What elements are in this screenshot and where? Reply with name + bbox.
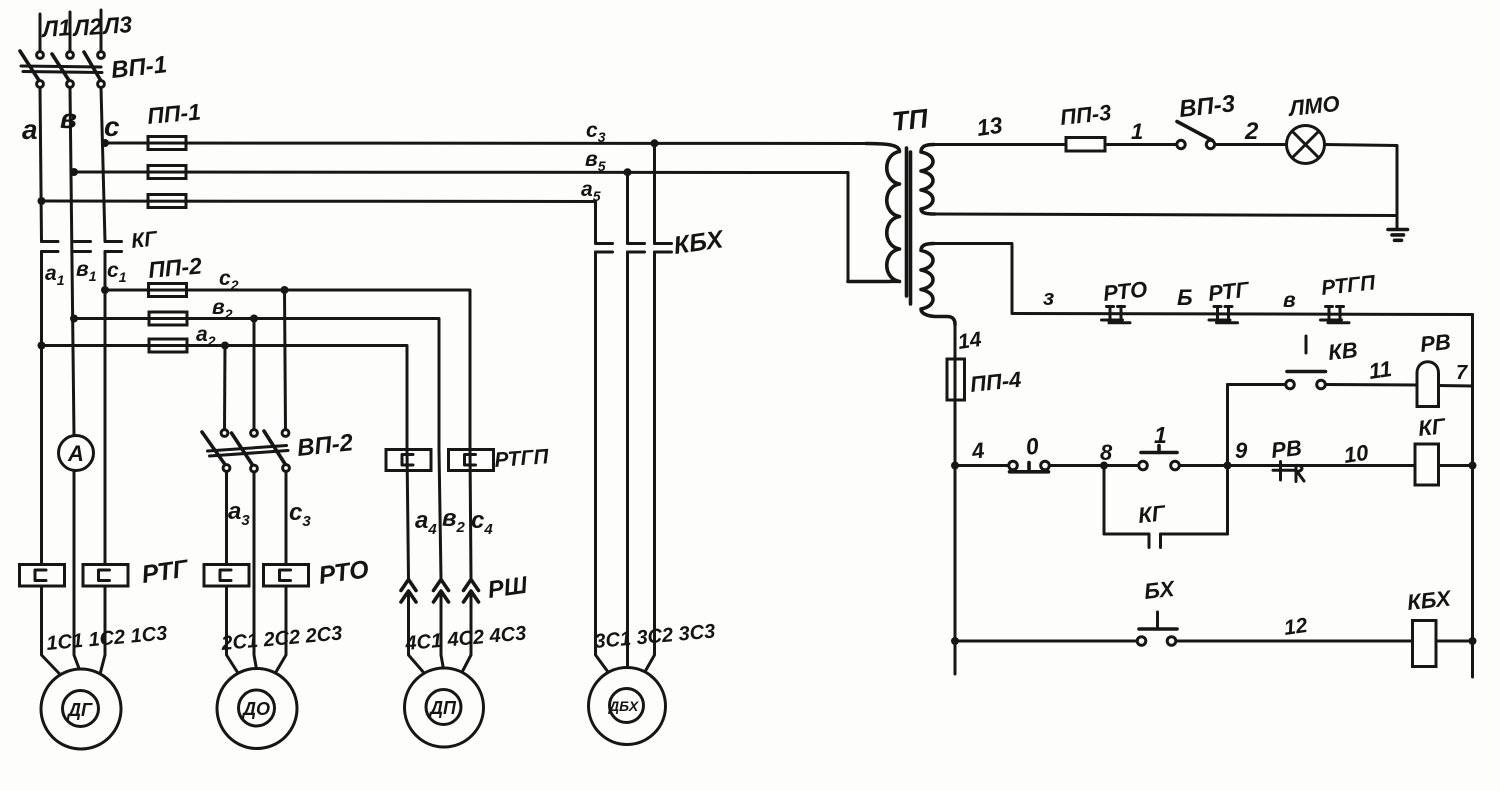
svg-text:Б: Б <box>1177 285 1193 310</box>
node b2 junction <box>70 315 78 323</box>
wire drop a2 to ВП-2 <box>223 346 227 430</box>
wire phase c upper <box>101 88 105 242</box>
svg-text:КГ: КГ <box>1137 500 1168 528</box>
connector РШ pole3 <box>464 580 479 603</box>
svg-text:ПП-2: ПП-2 <box>147 252 203 283</box>
motor ДГ <box>41 669 121 749</box>
thermal element РТГ.1 <box>20 565 65 587</box>
pushbutton БХ <box>1137 612 1177 645</box>
thermal element РТГП.1 <box>386 450 431 471</box>
wire КБХ pole1 upper <box>626 172 629 243</box>
node dot right rail / КГ row <box>1469 462 1477 470</box>
wire b2 upper <box>439 449 441 579</box>
wire lamp to ground rail <box>1325 145 1398 230</box>
wire a4 lower <box>409 592 428 678</box>
wire ВП-2 pole1 down <box>227 472 241 678</box>
wire phase b lower (below ammeter) <box>74 471 80 672</box>
transformer ТП lower secondary winding <box>921 244 955 325</box>
wire КБХ pole1 lower <box>596 252 612 676</box>
wire node 9 vertical <box>1226 385 1229 535</box>
input terminal Л1 <box>37 14 44 58</box>
contactor КГ main contact pole b (on phase b no break drawn at b? break) <box>74 242 91 252</box>
pushbutton 1 (start) <box>1139 446 1180 470</box>
relay coil РВ <box>1417 362 1439 407</box>
svg-text:ПП-3: ПП-3 <box>1059 100 1113 130</box>
pushbutton КВ <box>1286 336 1326 389</box>
wire lamp row 13 <box>934 143 1177 146</box>
wire b2 lower <box>441 592 444 670</box>
wire bottom row left <box>955 640 1137 643</box>
wire row a5 <box>42 201 596 243</box>
node 9 dot <box>1224 462 1232 470</box>
wire phase b upper <box>70 88 74 436</box>
wire row c3 <box>105 142 866 146</box>
contact РВ (time delay) <box>1273 462 1304 482</box>
svg-text:РТГП: РТГП <box>494 445 550 472</box>
contactor КБХ contact pole2 <box>628 244 645 253</box>
node b5 junction <box>70 168 78 176</box>
switch ВП-1 <box>20 51 104 87</box>
switch ВП-3 <box>1177 122 1215 149</box>
thermal element РТГ.2 <box>83 565 128 587</box>
ground <box>1388 230 1408 241</box>
svg-text:РВ: РВ <box>1270 435 1303 463</box>
svg-text:12: 12 <box>1282 614 1309 640</box>
wire drop c2 to ВП-2 <box>285 290 286 430</box>
svg-text:14: 14 <box>956 328 983 354</box>
node dot left rail / bottom row <box>951 637 959 645</box>
wire КБХ pole3 upper <box>653 143 656 243</box>
svg-text:КБХ: КБХ <box>1406 585 1453 615</box>
svg-text:КВ: КВ <box>1327 337 1359 365</box>
fuse ПП-2.1 <box>149 284 187 297</box>
wire row b2 <box>74 319 439 450</box>
svg-text:13: 13 <box>975 112 1004 141</box>
wire phase c lower <box>99 252 105 679</box>
wire phase a lower <box>42 252 64 679</box>
wire О to button 1 <box>1050 464 1139 467</box>
ammeter A <box>59 436 94 471</box>
svg-text:РШ: РШ <box>486 572 529 604</box>
wire ВП-2 pole3 down <box>273 472 286 678</box>
svg-text:РТГ: РТГ <box>1207 277 1252 306</box>
svg-text:РТО: РТО <box>1102 276 1148 305</box>
input terminal Л3 <box>98 10 105 58</box>
wire row b5 <box>74 172 884 282</box>
contact КГ auxiliary (hold) <box>1104 534 1228 548</box>
switch ВП-2 <box>202 430 289 472</box>
node c2 junction <box>101 286 109 294</box>
svg-text:1: 1 <box>1154 422 1167 448</box>
fuse ПП-1.1 <box>148 137 186 150</box>
wire ВП-2 pole2 down <box>254 472 257 669</box>
wire c4 lower <box>460 592 472 678</box>
fuse ПП-4 <box>947 359 965 400</box>
wire button 1 to КГ coil <box>1180 464 1416 467</box>
pushbutton О (stop) <box>1009 461 1050 472</box>
contactor КБХ contact pole1 <box>596 244 613 253</box>
node dot c3/КБХ branch <box>651 139 659 147</box>
node dot b5/КБХ branch <box>624 168 632 176</box>
relay coil КБХ <box>1413 621 1437 667</box>
svg-text:9: 9 <box>1235 438 1248 463</box>
wire left rail <box>954 325 957 675</box>
svg-text:1: 1 <box>1131 119 1143 144</box>
fuse ПП-1.3 <box>148 195 186 208</box>
input terminal Л2 <box>67 12 74 58</box>
wire node 2 <box>1215 143 1287 146</box>
contact РТГ <box>1209 307 1238 323</box>
node c3 junction <box>101 139 109 147</box>
svg-text:КГ: КГ <box>130 227 159 253</box>
node dot right rail / bottom row <box>1469 637 1477 645</box>
transformer ТП primary winding <box>848 144 900 282</box>
svg-text:ДГ: ДГ <box>66 700 93 720</box>
svg-text:8: 8 <box>1100 440 1113 465</box>
svg-text:в: в <box>60 103 77 134</box>
svg-text:Л3: Л3 <box>101 11 134 39</box>
svg-text:ПП-1: ПП-1 <box>146 98 202 129</box>
svg-text:10: 10 <box>1342 440 1370 468</box>
contact РТО <box>1102 307 1131 323</box>
svg-text:в: в <box>1283 289 1296 312</box>
svg-text:БХ: БХ <box>1143 576 1177 604</box>
svg-text:ДП: ДП <box>428 698 457 718</box>
svg-text:ДО: ДО <box>241 699 270 719</box>
svg-text:Л2: Л2 <box>71 13 104 41</box>
wire drop b2 to ВП-2 <box>253 319 256 430</box>
svg-text:с: с <box>104 111 120 142</box>
svg-text:з: з <box>1043 285 1054 310</box>
thermal element РТГП.2 <box>449 450 494 471</box>
wire bottom row right <box>1176 640 1413 643</box>
wire row c2 <box>105 290 470 450</box>
svg-text:7: 7 <box>1456 362 1468 384</box>
node dot a2/ВП-2 branch <box>221 342 229 350</box>
wire phase a upper <box>40 88 42 242</box>
svg-text:Л1: Л1 <box>40 14 72 42</box>
thermal element РТО.1 <box>204 565 249 587</box>
transformer ТП core <box>907 148 911 304</box>
wire КБХ coil to rail <box>1436 640 1473 643</box>
wire right rail <box>1471 315 1474 678</box>
contact РТГП <box>1321 307 1350 323</box>
wire a4 upper <box>407 450 409 580</box>
node dot c2/ВП-2 branch <box>281 286 289 294</box>
contactor КБХ contact pole3 <box>655 244 672 253</box>
wire row a2 <box>42 346 408 450</box>
wire РВ coil to rail <box>1439 384 1473 388</box>
wire КБХ pole2 lower <box>626 252 629 667</box>
motor ДО <box>217 669 297 749</box>
thermal element РТО.2 <box>264 565 309 587</box>
lamp ЛМО <box>1287 126 1325 164</box>
fuse ПП-1.2 <box>148 166 186 179</box>
wire secondary to node 3 <box>935 244 1473 315</box>
fuse ПП-3 <box>1066 138 1105 152</box>
svg-text:ПП-4: ПП-4 <box>969 367 1023 397</box>
svg-text:11: 11 <box>1367 356 1393 384</box>
svg-text:А: А <box>67 441 84 466</box>
svg-text:ТП: ТП <box>890 103 929 137</box>
node dot b2/ВП-2 branch <box>250 315 258 323</box>
wire КВ row <box>1228 383 1286 386</box>
wire КВ to РВ coil <box>1326 383 1418 387</box>
fuse ПП-2.3 <box>149 339 187 352</box>
motor ДБХ <box>589 668 666 745</box>
motor ДП <box>405 668 484 747</box>
wire КГ coil row <box>955 464 1009 467</box>
node a2 junction <box>38 342 46 350</box>
contactor КГ main contact pole a <box>42 242 59 252</box>
node a5 junction <box>38 197 46 205</box>
svg-text:ДБХ: ДБХ <box>608 698 640 714</box>
wire КБХ pole3 lower <box>643 252 655 676</box>
relay coil КГ <box>1415 444 1439 485</box>
transformer ТП upper secondary winding <box>921 145 935 215</box>
connector РШ pole1 <box>401 580 416 603</box>
svg-text:а: а <box>22 114 38 145</box>
wire node 8 drop <box>1103 466 1106 535</box>
svg-text:РВ: РВ <box>1419 329 1452 357</box>
wire return row <box>935 214 1396 216</box>
node dot left rail / КГ row <box>951 462 959 470</box>
fuse ПП-2.2 <box>149 312 187 325</box>
svg-text:КГ: КГ <box>1417 413 1448 441</box>
wire КГ coil to rail <box>1439 464 1473 467</box>
connector РШ pole2 <box>434 580 449 603</box>
wire c4 upper <box>470 450 471 580</box>
contactor КГ main contact pole c <box>105 242 122 252</box>
node 8 dot <box>1100 462 1108 470</box>
svg-text:2: 2 <box>1244 118 1259 145</box>
